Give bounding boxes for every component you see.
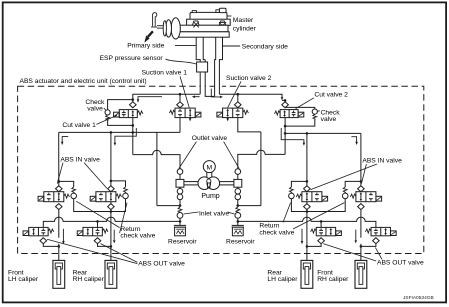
wire: cut valve 1 output to pump outlet (with hop over riser): [133, 150, 180, 168]
rear LH caliper: [301, 260, 313, 288]
svg-text:Suction valve 1: Suction valve 1: [142, 70, 188, 77]
wire: U bridge between primary and secondary tees: [205, 94, 214, 96]
label: ESP pressure sensor: [100, 55, 197, 64]
wire: left feed line from primary to cut valve 1: [133, 94, 200, 102]
svg-text:cylinder: cylinder: [233, 25, 257, 32]
wire: front RH caliper line: [360, 133, 363, 260]
svg-text:LH caliper: LH caliper: [8, 276, 39, 283]
check valve at cut valve 2: [285, 107, 317, 126]
label: Return check valve (right): [259, 203, 344, 237]
flow arrow: into left circuit: [192, 95, 200, 98]
wire: left riser to pump line: [157, 204, 181, 207]
pump suction check pair left: [177, 187, 183, 205]
suction valve 1 (solenoid valve): [169, 94, 201, 117]
front LH caliper: [53, 260, 65, 288]
return check valve 1: [59, 181, 111, 211]
svg-text:Master: Master: [233, 17, 254, 24]
label: ABS IN valve (right): [311, 158, 402, 190]
brake booster pushrod assembly: [151, 13, 180, 39]
wire: left gallery bus: [59, 131, 180, 134]
pump suction check pair right: [235, 187, 241, 205]
return check valve 4: [307, 181, 361, 211]
ABS IN valve 1: [38, 186, 69, 210]
flow arrow: suction valve 2 outlet stub: [226, 118, 229, 122]
wire: front LH caliper line: [58, 132, 61, 260]
svg-text:ABS OUT valve: ABS OUT valve: [377, 260, 424, 267]
label: Master cylinder: [227, 16, 257, 32]
wire: right riser from suction 2 elbow: [260, 132, 262, 206]
wire: rear RH caliper line: [110, 132, 113, 260]
ABS OUT valve 4: [365, 227, 396, 243]
outlet valve left (check ball): [177, 169, 183, 180]
wire: jog into cut valve 2: [282, 100, 285, 101]
svg-text:Cut valve 1: Cut valve 1: [62, 122, 96, 129]
junction dot: check valve tee at cut valve 1: [132, 98, 135, 101]
svg-text:JSFIA0534GB: JSFIA0534GB: [403, 295, 434, 301]
ESP pressure sensor: [197, 62, 208, 72]
svg-text:valve: valve: [87, 105, 103, 112]
svg-text:Outlet valve: Outlet valve: [192, 135, 228, 142]
return check valve 2: [111, 181, 128, 212]
outlet valve right (check ball): [235, 169, 241, 180]
label: Return check valve (left): [76, 201, 155, 239]
label: ABS OUT valve (right): [323, 244, 424, 267]
label: Secondary side: [223, 43, 288, 50]
flow arrow: right gallery mid drop: [281, 128, 305, 146]
ABS OUT valve 2: [77, 227, 108, 243]
pump motor M: [203, 161, 215, 173]
label: Front LH caliper: [8, 269, 39, 283]
label: Outlet valve: [179, 135, 239, 168]
label: Check valve (right): [318, 110, 341, 124]
ABS IN valve 2: [90, 186, 121, 210]
svg-text:LH caliper: LH caliper: [267, 276, 298, 283]
svg-text:Reservoir: Reservoir: [168, 239, 197, 246]
flow arrow: down to rear RH caliper: [113, 230, 116, 244]
label: Cut valve 2: [296, 92, 349, 109]
flow arrow: into cut valve 2 corner: [281, 97, 284, 100]
wire: OUT valve 3 hanger: [320, 221, 322, 227]
flow arrow: down to rear LH caliper: [301, 229, 304, 244]
flow arrow: down to front LH caliper: [62, 229, 65, 244]
reservoir left: [174, 225, 186, 235]
cut valve 1 (solenoid valve): [114, 102, 143, 118]
svg-text:RH caliper: RH caliper: [317, 276, 349, 283]
reservoir right: [232, 225, 244, 235]
label: ABS IN valve (left): [57, 157, 107, 189]
input force arrow: [144, 31, 153, 42]
ABS actuator and electric unit (control unit) dashed enclosure: [18, 85, 424, 254]
inlet valve right (spring check): [235, 207, 241, 225]
label: Suction valve 2: [226, 75, 272, 108]
rear RH caliper: [105, 260, 117, 288]
svg-text:Primary side: Primary side: [127, 42, 164, 49]
wire: cut valve 2 output to pump outlet (with hop over riser): [238, 150, 285, 169]
label: Rear RH caliper: [73, 269, 105, 283]
wire: suction valve 1 to left gallery: [179, 118, 181, 133]
ABS OUT valve 1: [23, 227, 54, 243]
svg-text:Suction valve 2: Suction valve 2: [226, 75, 272, 82]
wire: OUT valve 4 return loop: [361, 244, 376, 247]
svg-text:Inlet valve: Inlet valve: [199, 210, 229, 217]
wire: right return bus to OUT valves: [238, 217, 376, 227]
svg-text:Cut valve 2: Cut valve 2: [314, 92, 348, 99]
label: Suction valve 1: [142, 70, 190, 110]
wire: right riser to pump line: [237, 204, 261, 207]
wire: OUT valve 2 hanger: [97, 221, 99, 227]
label: Primary side: [127, 42, 196, 49]
wire: cut valve 1 main line down: [132, 118, 135, 155]
label: ABS OUT valve (left): [47, 239, 185, 267]
wire: OUT valve 1 return loop: [43, 244, 59, 247]
label: Check valve (left): [85, 99, 106, 112]
flow arrow: left gallery corner: [61, 137, 68, 145]
junction dot: check valve tee at cut valve 2: [284, 99, 287, 102]
wire: left return bus to OUT valves: [43, 217, 180, 227]
flow arrow: left gallery mid drop: [114, 128, 137, 146]
ABS IN valve 3: [296, 186, 327, 210]
svg-text:check valve: check valve: [259, 229, 294, 236]
junction dot: suction valve 2 tap: [237, 93, 240, 96]
svg-text:ABS IN valve: ABS IN valve: [362, 158, 402, 165]
label: Inlet valve: [184, 210, 235, 217]
wire: right feed line from secondary to cut valve 2: [219, 94, 282, 97]
flow arrow: suction valve 1 outlet stub: [189, 118, 192, 122]
svg-text:valve: valve: [321, 116, 337, 123]
return check valve 3: [289, 181, 307, 211]
wire: OUT valve 3 return loop: [307, 244, 321, 247]
wire: OUT valve 2 return loop: [98, 244, 111, 247]
svg-text:Pump: Pump: [201, 193, 219, 200]
pump eccentric and pistons: [176, 173, 242, 190]
wire: suction valve 2 to right riser: [238, 118, 261, 132]
flow arrow: right gallery corner: [351, 137, 358, 145]
label: Cut valve 1: [62, 115, 117, 129]
flow arrow: into cut valve 1: [137, 97, 162, 103]
wire: left return riser: [156, 132, 158, 205]
ABS OUT valve 3: [311, 227, 342, 243]
svg-text:M: M: [206, 164, 212, 171]
front RH caliper: [355, 260, 367, 288]
svg-text:ESP pressure sensor: ESP pressure sensor: [100, 55, 164, 62]
flow arrow: down to front RH caliper: [355, 230, 358, 244]
ABS IN valve 4: [350, 186, 381, 210]
flow arrow: into right circuit: [211, 89, 223, 99]
suction valve 2 (solenoid valve): [217, 94, 249, 117]
wire: secondary side pipe (double wall): [215, 37, 223, 96]
svg-text:check valve: check valve: [120, 233, 155, 240]
svg-text:RH caliper: RH caliper: [73, 276, 105, 283]
svg-text:Secondary side: Secondary side: [242, 43, 288, 50]
inlet valve left (spring check): [177, 207, 183, 225]
master cylinder body: [177, 8, 231, 37]
check valve at cut valve 1: [105, 100, 133, 126]
wire: rear LH caliper line: [306, 133, 309, 260]
svg-text:ABS OUT valve: ABS OUT valve: [138, 261, 185, 268]
wire: cut valve 2 main line down: [284, 118, 287, 155]
wire: primary side pipe (double wall): [196, 37, 205, 94]
junction dot: suction valve 1 tap: [179, 93, 182, 96]
svg-text:ABS IN valve: ABS IN valve: [60, 157, 100, 164]
wire: right gallery bus: [285, 132, 361, 135]
label: Rear LH caliper: [267, 269, 298, 283]
cut valve 2 (solenoid valve): [275, 102, 304, 118]
label: Front RH caliper: [317, 269, 349, 283]
svg-text:ABS actuator and electric unit: ABS actuator and electric unit (control …: [20, 78, 147, 85]
svg-text:Reservoir: Reservoir: [226, 239, 255, 246]
